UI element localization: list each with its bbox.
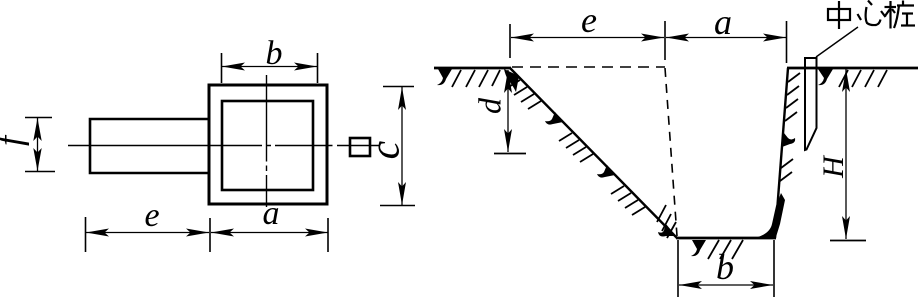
hatching: left ground bbox=[452, 70, 500, 87]
dimension d arrows bbox=[504, 70, 512, 93]
hatching: right wall bbox=[780, 73, 800, 181]
hatching: slope group 1 bbox=[507, 80, 541, 109]
dashed horizontal line (ground projection) bbox=[512, 66, 665, 68]
small square (center stake symbol) on centerline bbox=[350, 138, 370, 156]
leader line to label bbox=[816, 27, 858, 57]
dimension H bottom tick bbox=[830, 240, 866, 242]
hatch blob right wall bottom bbox=[758, 193, 785, 237]
dimension e/a shared extension line bbox=[664, 21, 666, 60]
dimension a right extension line bbox=[786, 21, 788, 63]
hatching: right ground bbox=[818, 69, 833, 85]
dimension a arrow right bbox=[305, 229, 328, 237]
dimension c extension line bottom bbox=[380, 205, 415, 207]
label 中心桩 drawn as strokes bbox=[828, 1, 915, 30]
svg-text:e: e bbox=[144, 197, 159, 234]
dimension e arrow left bbox=[86, 229, 109, 237]
hatching: slope group 3 bbox=[611, 186, 645, 215]
svg-text:c: c bbox=[363, 140, 409, 159]
svg-text:b: b bbox=[266, 35, 283, 72]
dimension b arrow left bbox=[222, 63, 245, 71]
dimension b (top) extension line left bbox=[221, 53, 223, 83]
dimension b line bbox=[222, 66, 317, 68]
vertical centerline bbox=[266, 75, 268, 207]
right pit wall bbox=[775, 68, 788, 238]
dimension d line bbox=[507, 70, 509, 152]
svg-text:H: H bbox=[817, 154, 850, 179]
char 中 bbox=[828, 1, 850, 29]
dimension e arrow right bbox=[186, 229, 209, 237]
dimension c line bbox=[401, 87, 403, 205]
dimension H arrows bbox=[842, 69, 850, 92]
dimension b (right diagram) extension line left bbox=[677, 240, 679, 297]
dimension f arrow up bbox=[33, 118, 41, 141]
dimension c (right) extension line top bbox=[383, 86, 414, 88]
dimension b (right diagram) extension line right bbox=[773, 240, 775, 297]
dimension a arrow left bbox=[211, 229, 234, 237]
svg-text:a: a bbox=[263, 195, 280, 232]
hatch blob slope 1 bbox=[545, 112, 563, 125]
hatch blob right wall middle bbox=[782, 133, 795, 147]
hatch blob at slope top corner bbox=[504, 69, 519, 92]
dimension e (right diagram) extension line left bbox=[509, 24, 511, 58]
slope line (left pit wall) bbox=[510, 68, 677, 238]
dimension e/a extension line right bbox=[327, 218, 329, 252]
char 心 bbox=[858, 1, 886, 26]
dimension c arrow up bbox=[398, 87, 406, 110]
outer square of foundation pit bbox=[209, 85, 327, 204]
dashed slant line (pit edge projection) bbox=[665, 68, 677, 236]
hatch blob slope 2 bbox=[597, 165, 615, 178]
svg-text:a: a bbox=[714, 2, 732, 42]
dimension a line bbox=[211, 232, 328, 234]
dimension b line (right diagram) bbox=[679, 284, 773, 286]
beam (trench) outline bbox=[90, 119, 209, 173]
hatch blob slope bottom corner bbox=[658, 224, 676, 237]
hatch blob left ground bbox=[437, 69, 452, 85]
dimension f line bbox=[37, 118, 39, 171]
dimension e/a extension line middle bbox=[209, 218, 211, 252]
ground surface line right bbox=[787, 67, 918, 70]
dimension e arrows (right diagram) bbox=[511, 34, 534, 42]
dimension e line (right diagram) bbox=[511, 37, 664, 39]
center stake (中心桩) bbox=[805, 58, 817, 150]
inner square of foundation bbox=[222, 101, 313, 190]
hatching: slope group 2 bbox=[559, 133, 593, 162]
svg-text:d: d bbox=[471, 97, 507, 114]
dimension b extension line right bbox=[317, 53, 319, 83]
dimension e line bbox=[86, 232, 209, 234]
pit bottom line bbox=[676, 237, 776, 240]
dimension f extension line bottom bbox=[25, 171, 55, 173]
dimension e/a (bottom) extension line left bbox=[85, 217, 87, 252]
char 桩 bbox=[885, 1, 916, 29]
hatching: below slope corner bbox=[657, 205, 676, 238]
dimension f arrow down bbox=[33, 148, 41, 171]
dimension f (far left) extension line top bbox=[25, 117, 52, 119]
svg-text:e: e bbox=[581, 0, 597, 40]
dimension a arrows (right diagram) bbox=[666, 34, 689, 42]
hatching: pit bottom bbox=[691, 240, 706, 256]
dimension b arrows (right diagram) bbox=[679, 281, 702, 289]
svg-text:b: b bbox=[716, 247, 734, 287]
dimension d bottom tick bbox=[494, 153, 526, 155]
horizontal centerline bbox=[68, 145, 380, 147]
dimension a line (right diagram) bbox=[666, 37, 786, 39]
dimension H line bbox=[845, 69, 847, 239]
dimension c arrow down bbox=[398, 182, 406, 205]
dimension b arrow right bbox=[294, 63, 317, 71]
ground surface line left bbox=[434, 67, 511, 70]
